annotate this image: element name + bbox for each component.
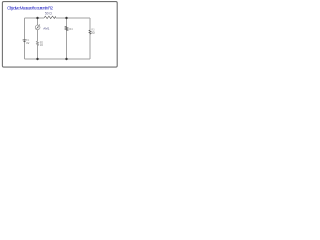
node B	[65, 17, 67, 19]
wire left branch	[24, 18, 26, 59]
wire top horizontal right	[56, 17, 90, 19]
svg-text:Objective: Measure the current: Objective: Measure the current in R2	[7, 6, 53, 11]
resistor R4	[65, 26, 68, 30]
svg-text:AM1: AM1	[43, 26, 50, 30]
node C	[36, 58, 38, 60]
battery V1	[23, 40, 27, 42]
svg-text:1Ω: 1Ω	[40, 44, 43, 47]
wire bottom horizontal	[25, 58, 91, 60]
svg-text:5Ω: 5Ω	[91, 32, 94, 35]
wire ammeter branch upper	[37, 18, 39, 25]
resistor R1 on top wire	[44, 16, 56, 19]
resistor R2 (in series with ammeter)	[36, 41, 38, 46]
wire right branch	[89, 18, 91, 59]
wire ammeter branch middle	[37, 30, 39, 41]
node A	[36, 17, 38, 19]
svg-text:1V: 1V	[26, 42, 29, 45]
svg-text:50 Ω: 50 Ω	[45, 11, 52, 15]
resistor R3 (right branch)	[89, 30, 91, 34]
wire ammeter branch lower	[37, 46, 39, 59]
node D	[65, 58, 67, 60]
ammeter AM1	[35, 24, 40, 29]
wire top horizontal left	[25, 17, 45, 19]
wire R4 branch	[66, 18, 68, 59]
